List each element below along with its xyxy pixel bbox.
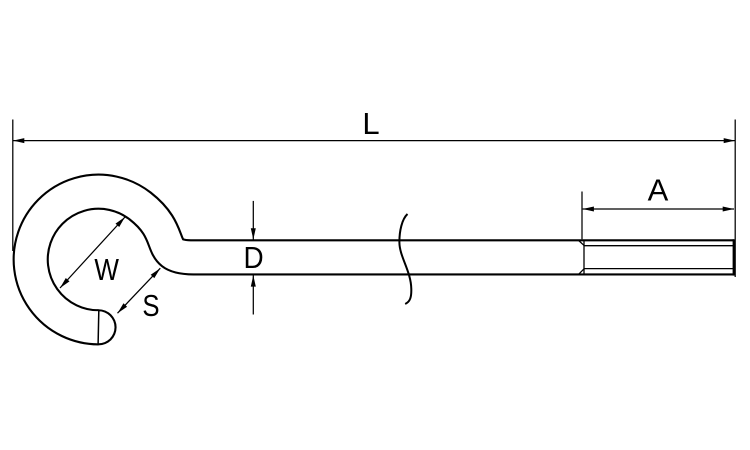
svg-text:L: L	[362, 106, 379, 141]
svg-text:S: S	[142, 289, 159, 324]
svg-text:D: D	[244, 241, 264, 276]
svg-text:A: A	[648, 172, 669, 207]
svg-text:W: W	[94, 253, 119, 288]
